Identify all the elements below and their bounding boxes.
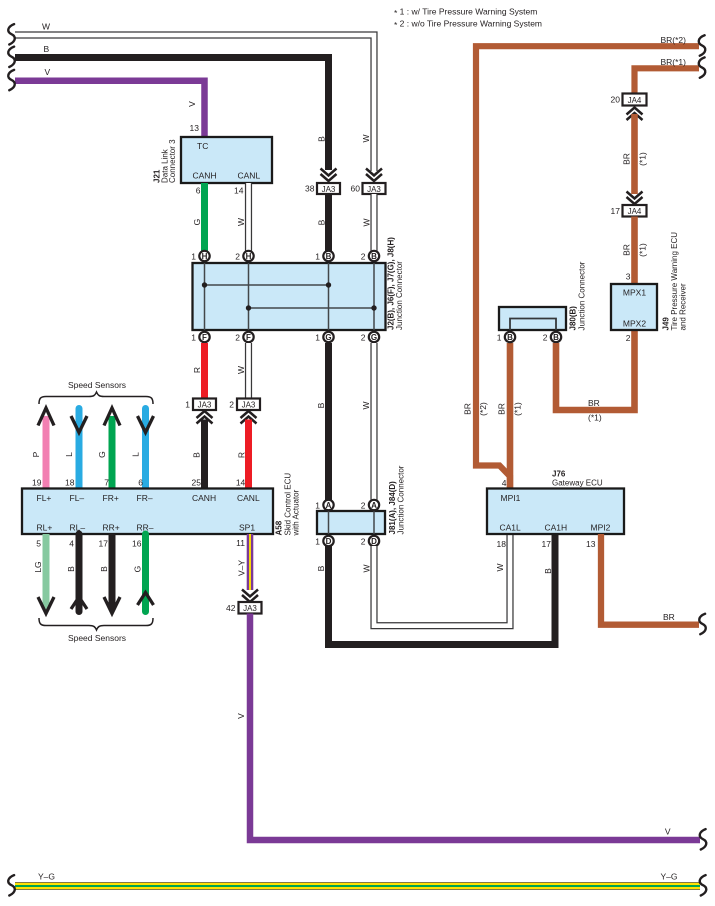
connector 2 JA3 [237,399,260,411]
svg-text:G: G [325,333,331,342]
svg-text:LG: LG [33,561,43,572]
pin 1F [199,332,209,342]
wire R from 2 JA3 to A58 pin 14 [245,420,252,490]
svg-text:G: G [371,333,377,342]
svg-text:11: 11 [236,538,245,548]
svg-text:CA1L: CA1L [500,523,522,533]
break squiggle V left [8,70,15,90]
break squiggle Y-G left [8,875,15,895]
svg-text:J80(B): J80(B) [569,306,578,331]
svg-text:3: 3 [626,272,631,282]
svg-text:2: 2 [626,333,631,343]
internal vertical 2A-2D [373,511,375,534]
svg-text:V: V [665,827,671,837]
wire B from 1D to CA1H (pin 17) [329,534,556,645]
svg-text:2: 2 [229,400,234,410]
svg-text:F: F [202,333,207,342]
break squiggle BR bottom right [699,614,706,634]
svg-text:6: 6 [138,478,143,488]
pin 2D [369,536,379,546]
svg-text:FL–: FL– [70,493,85,503]
wire BR from MPI2 down then right to break [601,534,699,625]
svg-text:with Actuator: with Actuator [292,489,301,536]
svg-text:RL+: RL+ [37,523,53,533]
svg-text:4: 4 [69,539,74,549]
svg-text:W: W [236,218,246,226]
svg-text:* 2 : w/o Tire Pressure Warnin: * 2 : w/o Tire Pressure Warning System [394,18,542,30]
break squiggle BR(*2) right [699,35,706,55]
svg-text:13: 13 [586,539,596,549]
connector 1 JA3 [193,399,216,411]
wire R from 1F to 1 JA3 [201,343,208,399]
arrow out of 2 JA3 (double chevron up) [241,411,257,424]
svg-text:Speed Sensors: Speed Sensors [68,633,126,643]
svg-text:A58: A58 [275,520,284,535]
svg-text:L: L [131,452,141,457]
arrow down FL- [71,416,87,433]
internal bus CANL [249,307,375,309]
svg-text:JA4: JA4 [628,96,642,105]
svg-text:MPI1: MPI1 [501,493,521,503]
pin 1G [323,332,333,342]
svg-text:2: 2 [543,333,548,343]
svg-text:Junction Connector: Junction Connector [395,261,404,330]
connector 60 JA3 [363,183,386,194]
svg-text:W: W [361,134,371,142]
internal vertical 1A-1D [328,511,330,534]
svg-text:G: G [133,566,143,573]
svg-text:13: 13 [190,123,200,133]
svg-text:W: W [362,564,372,572]
wire B from 1G to 1A [325,343,332,500]
break squiggle BR(*1) right [699,57,706,77]
svg-text:B: B [44,44,50,54]
svg-text:20: 20 [611,95,621,105]
svg-text:R: R [192,367,202,373]
svg-text:V: V [236,713,246,719]
wire W (white, top) from left break to turn-down at x=374 [15,35,374,171]
svg-text:TC: TC [197,141,208,151]
break squiggle B left [8,47,15,67]
svg-text:14: 14 [234,186,244,196]
svg-text:F: F [246,333,251,342]
arrow into 42 JA3 (double chevron down) [242,590,258,603]
svg-text:14: 14 [236,478,246,488]
svg-text:BR: BR [463,403,473,415]
svg-text:J76: J76 [552,469,566,478]
svg-text:JA3: JA3 [198,401,212,410]
pin 2A [369,500,379,510]
svg-text:B: B [507,333,513,342]
internal vertical 2H-2F [248,263,250,330]
connector 42 JA3 [239,602,262,614]
svg-text:B: B [553,333,559,342]
pin 2H [243,251,253,261]
svg-text:D: D [371,537,377,546]
pin 1B [323,251,333,261]
svg-text:1: 1 [185,400,190,410]
svg-text:CANH: CANH [193,171,217,181]
svg-text:17: 17 [611,206,621,216]
pin 1A [323,500,333,510]
svg-text:B: B [99,566,109,572]
svg-text:H: H [246,252,252,261]
wire W from 2G to 2A [370,343,377,500]
wire W from TC CANL to junction 2H [245,183,252,251]
svg-text:2: 2 [361,252,366,262]
arrow up FL+ [38,408,54,426]
brace (bottom) [39,618,153,630]
svg-text:L: L [64,452,74,457]
svg-text:W: W [42,22,50,32]
arrow down RL+ [38,597,54,614]
svg-text:R: R [236,452,246,458]
svg-text:G: G [192,219,202,226]
svg-text:2: 2 [361,333,366,343]
svg-text:2: 2 [235,333,240,343]
connector 38 JA3 [317,183,340,194]
svg-text:B: B [192,452,202,458]
arrow down FR- [138,416,154,433]
arrow out of 1 JA3 (double chevron up) [197,411,213,424]
svg-text:60: 60 [351,184,361,194]
svg-text:V: V [45,67,51,77]
svg-text:Speed Sensors: Speed Sensors [68,380,126,390]
svg-text:2: 2 [361,501,366,511]
svg-text:(*2): (*2) [478,402,488,416]
break squiggle Y-G right [700,875,707,895]
svg-text:7: 7 [104,478,109,488]
svg-text:MPI2: MPI2 [591,523,611,533]
svg-text:BR: BR [663,612,675,622]
wire B from 38 JA3 to junction 1B [325,194,332,251]
svg-text:17: 17 [542,539,552,549]
wire B (RL-) [76,534,83,612]
svg-text:Junction Connector: Junction Connector [397,465,406,534]
svg-text:W: W [236,366,246,374]
svg-text:V–Y: V–Y [237,560,247,576]
pin 2G [369,332,379,342]
svg-text:FR–: FR– [137,493,153,503]
svg-text:BR(*2): BR(*2) [660,35,686,45]
svg-text:6: 6 [196,186,201,196]
internal vertical 1B-1G [328,263,330,330]
wire G (RR-) [142,534,149,612]
svg-text:BR: BR [497,403,507,415]
svg-text:SP1: SP1 [239,523,255,533]
pin 1B (J80) [505,332,515,342]
svg-text:CA1H: CA1H [545,523,568,533]
svg-text:JA3: JA3 [243,604,257,613]
svg-text:(*1): (*1) [638,152,648,166]
svg-text:1: 1 [497,333,502,343]
wire L (FR-) [142,409,149,490]
svg-text:CANH: CANH [192,493,216,503]
svg-text:H: H [202,252,208,261]
wire LG (RL+) [43,534,50,610]
connector 17 JA4 [623,205,647,217]
wire W from 60 JA3 to junction 2B [370,194,377,251]
arrow up FR+ [104,408,120,426]
wire V (violet) from left break, turn down at x=204.5 into TC pin 13 [15,81,205,139]
arrow into 38 JA3 (double chevron down) [321,169,337,182]
pin 1H [199,251,209,261]
svg-text:1: 1 [315,252,320,262]
wire Y-G [15,882,700,890]
svg-text:19: 19 [32,478,42,488]
connector J21 box [181,137,272,183]
svg-text:JA3: JA3 [322,185,336,194]
wire BR(*1): from right break, left then down x=634.5 to 20 JA4 [635,68,700,94]
svg-text:W: W [362,218,372,226]
connector 20 JA4 [623,94,647,106]
svg-text:Y–G: Y–G [38,872,55,882]
svg-text:18: 18 [65,478,75,488]
wire B from 1 JA3 to A58 pin 25 [201,420,208,490]
svg-text:B: B [66,566,76,572]
svg-text:4: 4 [502,478,507,488]
svg-text:16: 16 [132,539,142,549]
svg-text:A: A [371,501,377,510]
svg-text:5: 5 [36,539,41,549]
wire P (FL+) [43,416,50,489]
svg-text:B: B [543,568,553,574]
svg-text:BR: BR [622,244,632,256]
wire B (black) from left break, turn down at x=328.5 to JA3 [15,58,329,171]
pin 2B [369,251,379,261]
wire B (RR+) [109,534,116,610]
wire G from TC CANH to junction 1H [201,183,208,251]
svg-text:BR: BR [588,398,600,408]
svg-text:B: B [316,402,326,408]
wire BR(*1) from J80 1B to MPI1 pin 4 [507,343,514,489]
internal vertical 2B-2G [373,263,375,330]
svg-text:* 1 : w/ Tire Pressure Warning: * 1 : w/ Tire Pressure Warning System [394,6,537,18]
svg-text:17: 17 [99,539,109,549]
svg-text:P: P [31,451,41,457]
svg-text:Y–G: Y–G [661,872,678,882]
svg-text:(*1): (*1) [638,243,648,257]
svg-text:BR: BR [622,153,632,165]
arrow into 60 JA3 (double chevron down) [366,169,382,182]
svg-text:(*1): (*1) [588,413,602,423]
wire G (FR+) [109,416,116,489]
pin 1D [323,536,333,546]
svg-text:1: 1 [315,537,320,547]
svg-text:V: V [187,101,197,107]
svg-text:B: B [326,252,332,261]
svg-text:W: W [495,563,505,571]
svg-text:B: B [317,136,327,142]
wire L (FL-) [76,409,83,490]
svg-text:D: D [326,537,332,546]
svg-text:Gateway ECU: Gateway ECU [552,478,603,487]
svg-text:FR+: FR+ [103,493,119,503]
svg-text:1: 1 [191,252,196,262]
internal vertical 1H-1F [204,263,206,330]
svg-text:25: 25 [192,478,202,488]
svg-text:MPX2: MPX2 [623,319,646,329]
svg-text:W: W [361,401,371,409]
svg-text:A: A [326,501,332,510]
svg-text:RR+: RR+ [103,523,120,533]
arrow into 17 JA4 (double chevron down) [627,192,643,205]
svg-text:B: B [371,252,377,261]
svg-text:CANL: CANL [237,493,260,503]
arrow up RL- [71,597,87,609]
wire BR(*1) [556,331,635,410]
svg-text:CANL: CANL [238,171,261,181]
wire V from 42 JA3 down then right to break [250,614,700,841]
svg-text:18: 18 [497,539,507,549]
svg-text:and Receiver: and Receiver [679,283,688,330]
pin 2B (J80) [551,332,561,342]
svg-text:B: B [316,565,326,571]
svg-text:Junction Connector: Junction Connector [578,261,587,330]
svg-text:38: 38 [305,184,315,194]
wire V-Y from SP1 to 42 JA3 [247,534,254,590]
svg-text:1: 1 [315,333,320,343]
wire BR(*2): from right break, left then down x=476, jog into gateway pin 4 [476,46,699,488]
arrow up RR- [138,593,154,606]
wire BR from 17 JA4 to MPX1 pin 3 [631,217,638,286]
svg-text:1: 1 [191,333,196,343]
svg-text:JA3: JA3 [242,401,256,410]
brace (top) [39,392,153,404]
svg-text:Connector 3: Connector 3 [168,139,177,183]
svg-text:2: 2 [361,537,366,547]
wire W from 2F to 2 JA3 [245,343,252,399]
break squiggle V right [700,829,707,849]
svg-text:42: 42 [226,603,236,613]
svg-text:(*1): (*1) [513,402,523,416]
arrow out of 20 JA4 (double chevron up) [627,108,643,121]
pin 2F [243,332,253,342]
svg-text:JA4: JA4 [628,207,642,216]
svg-text:G: G [97,451,107,458]
internal bus U [510,319,556,331]
svg-text:FL+: FL+ [37,493,52,503]
wire BR between JA4s [631,114,638,194]
break squiggle W left [8,24,15,44]
svg-text:2: 2 [235,252,240,262]
svg-text:B: B [316,219,326,225]
svg-text:BR(*1): BR(*1) [660,57,686,67]
internal bus CANH [205,284,329,286]
svg-text:JA3: JA3 [367,185,381,194]
svg-text:1: 1 [315,501,320,511]
wire W from 2D to CA1L (pin 18) [374,534,510,626]
arrow down RR+ [104,597,120,614]
svg-text:MPX1: MPX1 [623,288,646,298]
